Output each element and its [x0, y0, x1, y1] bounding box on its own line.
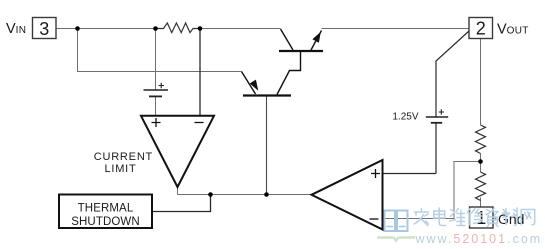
junction node sense resistor left — [153, 26, 158, 31]
glyph wang — [521, 210, 535, 226]
junction node Q1 base tie — [264, 192, 269, 197]
junction node VIN split — [75, 26, 80, 31]
wire error amp plus input to 1.25V reference — [383, 173, 437, 175]
wire VIN lower branch to Q1 emitter — [78, 29, 242, 72]
label Gnd — [494, 218, 496, 220]
junction node sense resistor right — [198, 26, 203, 31]
watermark book icon — [377, 211, 415, 241]
svg-text:LIMIT: LIMIT — [104, 163, 136, 175]
watermark chinese glyphs (stylised strokes) — [414, 208, 535, 227]
pin box 2 — [469, 18, 493, 39]
wire Q1 base down to node — [266, 96, 268, 195]
wire thermal shutdown to output node — [153, 195, 211, 212]
op-amp CURRENT LIMIT (inverted triangle) — [141, 116, 214, 187]
wire sense resistor left to battery + CL amp plus input — [155, 29, 157, 116]
glyph xiu — [467, 209, 482, 226]
minus input marker — [370, 218, 379, 220]
svg-text:THERMAL: THERMAL — [78, 202, 134, 214]
wire 1.25V reference up to VOUT pin — [436, 31, 469, 174]
glyph zi — [486, 208, 498, 227]
glyph dian — [434, 208, 446, 226]
svg-text:2: 2 — [476, 19, 486, 39]
resistor R1 (divider top, vertical) — [476, 125, 486, 154]
junction node thermal tie — [208, 192, 213, 197]
svg-text:1.25V: 1.25V — [392, 111, 418, 122]
wire VOUT pin down to divider — [480, 39, 482, 208]
glyph wei — [450, 209, 465, 226]
transistor Q1 (PNP driver, lower) — [242, 72, 292, 96]
minus input marker — [195, 122, 204, 124]
glyph liao — [503, 208, 518, 226]
pin box 1 — [470, 207, 494, 228]
plus input marker — [152, 118, 161, 127]
svg-text:SHUTDOWN: SHUTDOWN — [71, 216, 140, 228]
plus input marker — [371, 169, 380, 178]
wire error amp minus input to divider tap — [383, 162, 481, 219]
op-amp error amplifier (points left) — [312, 160, 383, 230]
svg-text:CURRENT: CURRENT — [94, 151, 153, 163]
svg-text:www.520101.com: www.520101.com — [415, 232, 543, 246]
pin box 3 — [33, 18, 57, 39]
glyph jia — [414, 209, 429, 226]
wire VIN top rail segments — [57, 28, 470, 30]
junction node divider tap — [478, 159, 483, 164]
battery 1.25V reference (plus label) — [426, 109, 448, 123]
battery offset for current limit (plus label) — [144, 83, 169, 97]
wire CL amp output to error amp output node — [178, 187, 312, 195]
svg-text:3: 3 — [39, 19, 49, 39]
resistor sense (top, horizontal) — [156, 23, 200, 33]
transistor Q2 (NPN pass, upper) — [277, 29, 323, 95]
block THERMAL SHUTDOWN — [59, 195, 152, 229]
resistor R2 (divider bottom, vertical) — [476, 172, 486, 200]
wire sense resistor right to CL amp minus input — [199, 29, 201, 116]
